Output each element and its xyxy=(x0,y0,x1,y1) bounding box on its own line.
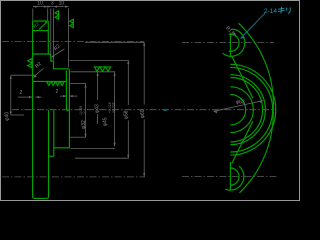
ear outer sweep top xyxy=(239,23,274,110)
extension line phi43/45 top xyxy=(70,71,115,73)
svg-text:φ43: φ43 xyxy=(94,104,100,113)
inner circle r15.3 xyxy=(230,94,245,125)
svg-text:2: 2 xyxy=(56,89,59,95)
svg-text:φ32: φ32 xyxy=(81,120,87,129)
bottom bolt hole xyxy=(230,168,239,185)
dimension 2 right xyxy=(56,89,78,97)
svg-text:φ58: φ58 xyxy=(124,110,130,119)
stepped flange profile right side xyxy=(33,54,70,148)
svg-text:10: 10 xyxy=(37,1,43,7)
svg-text:3: 3 xyxy=(51,1,54,7)
fillet label R2 left wall xyxy=(33,61,44,78)
ear inner edge top xyxy=(232,56,253,98)
svg-text:φ60: φ60 xyxy=(140,109,146,118)
lower section bore wall 53.8 xyxy=(53,110,55,156)
top dimension 10 3 10 xyxy=(33,1,69,68)
dimension phi60 xyxy=(85,42,146,176)
lower step face xyxy=(49,155,54,157)
flange edge second line xyxy=(65,71,67,110)
drill note 2-14 leader (cyan) xyxy=(240,7,290,39)
fillet label R2 in boss (green) xyxy=(32,21,48,30)
snap blip on main axis xyxy=(164,109,167,111)
svg-text:2: 2 xyxy=(20,90,23,96)
dimension 2 left xyxy=(18,90,42,98)
centerline bottom bolt axis left view xyxy=(2,176,145,178)
dimension phi43 xyxy=(94,72,100,124)
extension line phi58 top xyxy=(70,60,129,62)
svg-text:+0.002: +0.002 xyxy=(111,102,115,113)
symmetry axis tick bottom hole xyxy=(229,162,231,190)
ear outer sweep bottom xyxy=(240,110,274,193)
drawing area border xyxy=(1,1,300,201)
left wall, top face, bottom face and lower bore wall xyxy=(33,21,49,198)
dimension phi45 xyxy=(103,72,116,146)
boss right wall xyxy=(47,21,49,54)
surface finish pair top 2 xyxy=(70,19,74,27)
svg-text:10: 10 xyxy=(59,1,65,7)
extension line phi45 bottom xyxy=(71,147,116,149)
bottom flange end arc xyxy=(225,166,244,190)
surface finish pair at left wall xyxy=(28,59,32,68)
svg-text:φ40: φ40 xyxy=(5,112,11,121)
dimension phi58 xyxy=(124,61,130,159)
extension line phi32 top xyxy=(70,82,86,84)
svg-text:φ63: φ63 xyxy=(236,100,245,106)
circle r32.2 (phi45) xyxy=(230,78,262,142)
svg-text:φ45: φ45 xyxy=(103,117,109,126)
extension line phi32 bottom xyxy=(70,136,86,138)
inner circle r22.9 (phi32) xyxy=(230,87,253,133)
circle r42.3 (phi58) xyxy=(230,67,272,152)
top flange end arc R13 xyxy=(223,29,245,56)
label R13 xyxy=(224,25,236,36)
surface finish triangles on bore step xyxy=(47,82,64,86)
symmetry axis tick top hole xyxy=(229,34,231,57)
svg-text:0: 0 xyxy=(82,112,86,114)
fillet label R2 step xyxy=(51,43,65,57)
centerline top bolt axis left view xyxy=(2,41,144,43)
centerline bottom bolt axis right view xyxy=(182,176,277,178)
packing groove line in boss xyxy=(33,30,49,32)
centerline top bolt axis right view xyxy=(182,41,274,43)
ear inner edge bottom xyxy=(232,121,253,163)
half-section boundary tick at axis xyxy=(66,109,69,111)
bore step line xyxy=(33,80,67,82)
circle r35.0 xyxy=(230,75,265,145)
svg-text:2-14: 2-14 xyxy=(264,8,277,15)
circle r45.4 (phi63) xyxy=(230,64,275,155)
surface finish pair top 1 xyxy=(55,11,59,19)
centerline main axis xyxy=(12,109,276,111)
dimension phi63 diagonal xyxy=(214,100,264,114)
dimension phi32 xyxy=(79,84,87,137)
dimension phi40 xyxy=(5,75,36,121)
top bolt hole xyxy=(229,34,239,51)
extension line phi58 bottom xyxy=(75,157,129,159)
surface finish triangles row mid xyxy=(94,67,110,72)
